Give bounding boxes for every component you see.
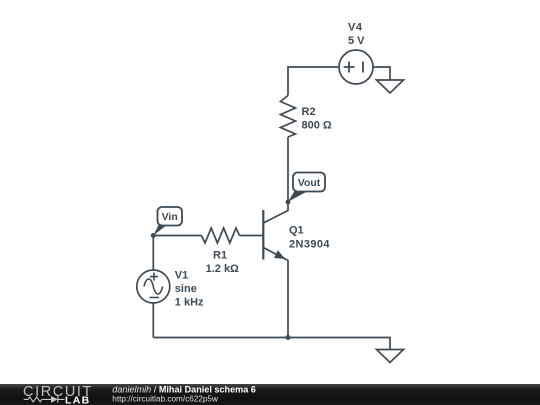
callout pointer Vout: [288, 191, 307, 202]
source V1 sine: [144, 279, 163, 294]
wire base from R1: [240, 235, 264, 237]
wire V4 right to ground stub: [373, 67, 390, 80]
resistor R1: [202, 228, 240, 243]
svg-text:LAB: LAB: [65, 394, 90, 405]
source V4 circle: [339, 50, 373, 84]
svg-text:2N3904: 2N3904: [289, 239, 330, 251]
svg-text:800 Ω: 800 Ω: [302, 120, 332, 132]
svg-text:1 kHz: 1 kHz: [175, 297, 204, 309]
svg-text:V4: V4: [348, 22, 363, 34]
svg-text:Vout: Vout: [298, 177, 321, 189]
transistor Q1 emitter arrow: [274, 250, 285, 259]
svg-text:danielmih / Mihai Daniel schem: danielmih / Mihai Daniel schema 6: [112, 384, 256, 394]
svg-text:http://circuitlab.com/c622p5w: http://circuitlab.com/c622p5w: [112, 394, 218, 403]
wire V1 bottom: [152, 303, 154, 338]
wire Vin node to R1: [153, 235, 201, 237]
source V1 plus: [150, 273, 158, 281]
node dot Vin: [151, 233, 156, 238]
wire Vin node to V1 top: [152, 236, 154, 271]
callout pointer Vin: [153, 225, 166, 236]
ground top right: [377, 80, 404, 93]
transistor Q1 base bar: [262, 210, 264, 260]
ground bottom right: [377, 350, 404, 363]
source V4 bar: [362, 62, 364, 73]
source V1 minus: [150, 297, 160, 299]
wire V4 left to R2 top corner: [288, 67, 339, 96]
source V1 circle: [137, 270, 170, 303]
logo diode: [51, 396, 58, 403]
flag Vout: [293, 173, 325, 192]
wire bottom rail to ground: [153, 338, 390, 350]
svg-text:sine: sine: [175, 283, 197, 295]
flag Vin: [158, 207, 183, 226]
svg-text:R2: R2: [302, 106, 316, 118]
svg-text:V1: V1: [175, 270, 188, 282]
svg-text:Q1: Q1: [289, 225, 304, 237]
svg-text:R1: R1: [213, 250, 227, 262]
resistor R2: [281, 96, 296, 138]
svg-text:5 V: 5 V: [348, 35, 365, 47]
footer bar: [0, 384, 540, 405]
svg-text:Vin: Vin: [162, 211, 178, 223]
transistor Q1 collector: [263, 202, 288, 223]
node dot Vout/collector: [286, 200, 291, 205]
node dot emitter rail: [286, 335, 291, 340]
svg-text:1.2 kΩ: 1.2 kΩ: [206, 263, 239, 275]
wire R2 bottom to collector node: [287, 137, 289, 202]
transistor Q1 emitter: [263, 248, 288, 338]
logo schematic line: [24, 396, 65, 403]
source V4 plus: [344, 62, 355, 73]
